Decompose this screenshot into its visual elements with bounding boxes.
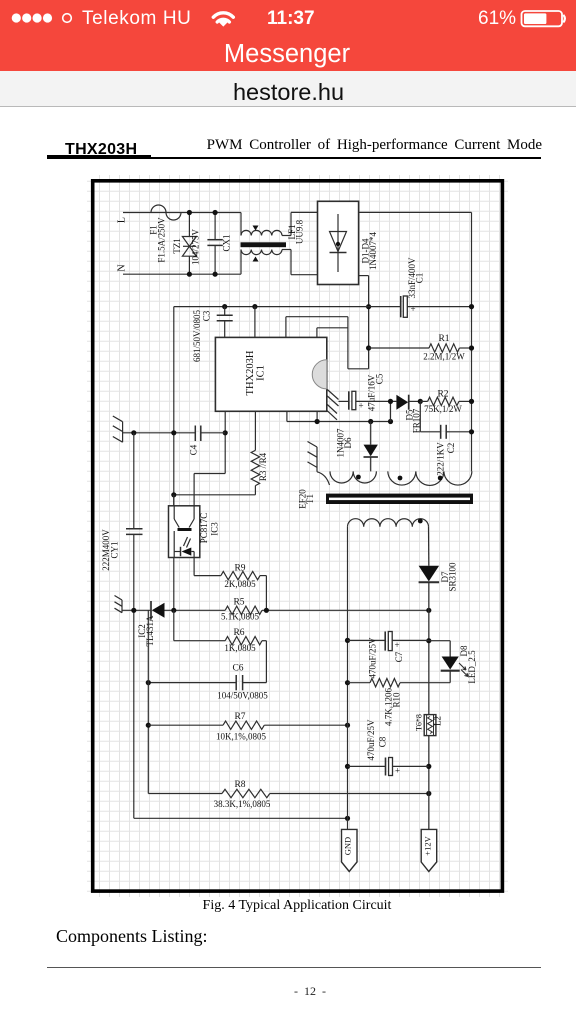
svg-text:681/50V/0805: 681/50V/0805 — [192, 310, 202, 363]
svg-text:10K,1%,0805: 10K,1%,0805 — [216, 732, 266, 742]
svg-text:C7: C7 — [394, 651, 404, 662]
svg-text:+12V: +12V — [422, 835, 432, 855]
svg-text:C2: C2 — [446, 443, 456, 454]
svg-text:C4: C4 — [189, 444, 199, 455]
svg-text:75K,1/2W: 75K,1/2W — [424, 404, 462, 414]
svg-text:104/275V: 104/275V — [191, 228, 201, 265]
svg-text:R7: R7 — [234, 712, 245, 722]
svg-text:C3: C3 — [202, 310, 212, 321]
svg-text:R1: R1 — [438, 334, 449, 344]
svg-text:PC817C: PC817C — [199, 513, 209, 544]
svg-text:1K,0805: 1K,0805 — [224, 643, 256, 653]
svg-text:C6: C6 — [232, 664, 243, 674]
svg-text:2K,0805: 2K,0805 — [224, 579, 256, 589]
svg-text:EF20: EF20 — [298, 489, 308, 509]
svg-text:4.7K,1206: 4.7K,1206 — [384, 688, 394, 726]
svg-text:+: + — [394, 640, 399, 650]
svg-text:C5: C5 — [375, 373, 385, 384]
svg-text:222/1KV: 222/1KV — [436, 442, 446, 476]
svg-text:GND: GND — [343, 837, 353, 855]
svg-text:C1: C1 — [415, 273, 425, 284]
svg-text:R5: R5 — [233, 598, 244, 608]
svg-text:5.1K,0805: 5.1K,0805 — [221, 612, 259, 622]
svg-text:LED_2.5: LED_2.5 — [467, 650, 477, 684]
svg-text:L: L — [117, 217, 128, 223]
svg-text:1N4007: 1N4007 — [336, 428, 346, 457]
svg-text:IC3: IC3 — [210, 522, 220, 536]
svg-text:IC1: IC1 — [256, 365, 267, 381]
svg-text:1N4007*4: 1N4007*4 — [368, 232, 378, 270]
svg-text:CY1: CY1 — [110, 541, 120, 558]
svg-text:222M400V: 222M400V — [101, 529, 111, 571]
svg-text:F1.5A/250V: F1.5A/250V — [157, 217, 167, 263]
svg-text:L2: L2 — [433, 716, 443, 726]
svg-text:R8: R8 — [234, 780, 245, 790]
svg-text:T6*8: T6*8 — [415, 714, 424, 731]
svg-text:38.3K,1%,0805: 38.3K,1%,0805 — [214, 799, 271, 809]
svg-text:CX1: CX1 — [222, 234, 232, 251]
svg-text:THX203H: THX203H — [245, 350, 256, 395]
svg-text:TL431A: TL431A — [145, 615, 155, 646]
svg-text:+: + — [410, 304, 415, 314]
svg-text:104/50V,0805: 104/50V,0805 — [217, 691, 268, 701]
svg-text:R3 //R4: R3 //R4 — [258, 452, 268, 481]
svg-text:+: + — [395, 766, 400, 776]
svg-text:TZ1: TZ1 — [172, 238, 182, 254]
svg-text:R6: R6 — [233, 628, 244, 638]
svg-text:N: N — [117, 264, 128, 271]
svg-text:2.2M,1/2W: 2.2M,1/2W — [423, 352, 465, 362]
svg-text:R9: R9 — [234, 564, 245, 574]
svg-text:470uF/25V: 470uF/25V — [366, 719, 376, 761]
svg-text:R2: R2 — [437, 390, 448, 400]
svg-text:470uF/25V: 470uF/25V — [368, 637, 378, 679]
svg-text:C8: C8 — [378, 736, 388, 747]
svg-text:UU9.8: UU9.8 — [295, 219, 305, 244]
svg-text:SR3100: SR3100 — [448, 562, 458, 592]
